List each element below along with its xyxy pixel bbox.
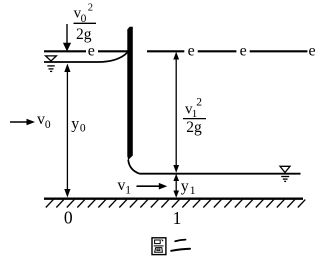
water surface symbol downstream <box>280 166 290 181</box>
svg-text:0: 0 <box>64 208 73 228</box>
label y0 <box>71 115 86 134</box>
caption character er (two) <box>171 240 190 251</box>
dimension y0 <box>64 64 70 198</box>
fraction v1^2/2g <box>183 96 206 136</box>
upstream water surface <box>44 52 128 62</box>
svg-text:e: e <box>188 42 195 59</box>
label v0 <box>37 111 51 131</box>
svg-text:v: v <box>117 177 125 194</box>
energy line e downstream segment 1 <box>147 50 184 52</box>
energy line e upstream <box>44 50 128 52</box>
svg-text:2: 2 <box>196 96 202 108</box>
sluice gate <box>127 27 133 160</box>
svg-text:1: 1 <box>190 185 196 197</box>
inflow arrow <box>10 119 35 125</box>
fraction v0^2/2g <box>74 2 97 43</box>
svg-text:v: v <box>37 111 45 128</box>
arrow v0^2/2g down <box>63 24 71 52</box>
jet surface curve <box>128 160 139 174</box>
svg-text:2g: 2g <box>76 26 92 43</box>
ground hatching <box>46 200 306 208</box>
ground line <box>44 198 303 200</box>
svg-text:2: 2 <box>88 2 93 13</box>
label y1 <box>181 178 196 197</box>
arrow v1 <box>137 183 168 190</box>
svg-text:e: e <box>309 42 316 59</box>
water surface symbol upstream <box>46 56 57 72</box>
svg-text:0: 0 <box>80 123 86 135</box>
energy line e downstream segment 3 <box>250 50 308 52</box>
svg-text:1: 1 <box>173 208 182 228</box>
svg-text:e: e <box>88 42 95 59</box>
dimension y1 <box>173 174 179 198</box>
caption character tu (figure) <box>152 238 166 255</box>
svg-text:2g: 2g <box>186 119 202 136</box>
downstream water surface <box>140 173 301 175</box>
dimension v1^2/2g <box>173 52 179 173</box>
energy line e downstream segment 2 <box>198 50 237 52</box>
svg-text:y: y <box>71 115 79 132</box>
svg-text:1: 1 <box>125 184 131 196</box>
svg-text:y: y <box>181 178 189 195</box>
svg-text:0: 0 <box>45 119 51 131</box>
svg-text:e: e <box>240 42 247 59</box>
label v1 <box>117 177 131 197</box>
